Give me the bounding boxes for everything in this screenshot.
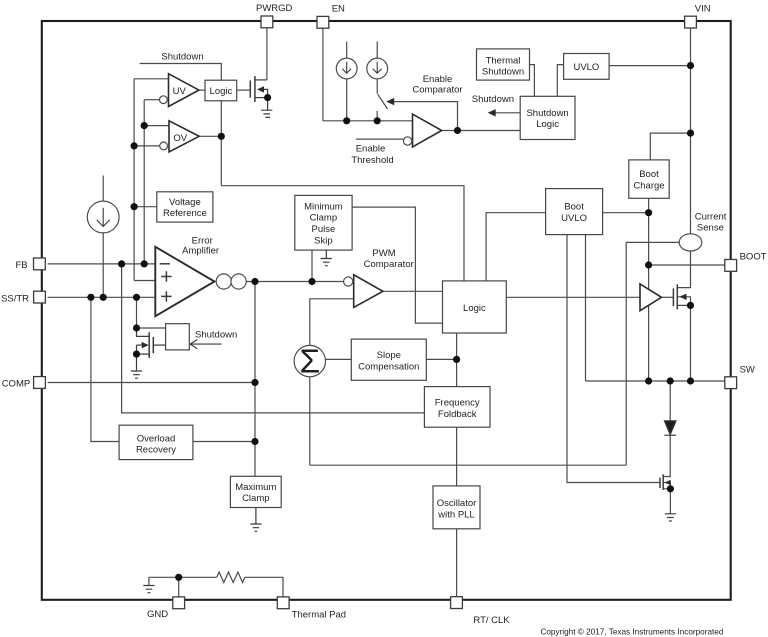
bubble enable comparator inverting input bbox=[403, 137, 411, 145]
junction COMP node bbox=[251, 379, 258, 386]
pin PWRGD bbox=[261, 16, 273, 28]
shutdown control box bbox=[166, 324, 190, 350]
wire GND pin riser bbox=[178, 577, 180, 597]
current source I2 circle bbox=[367, 58, 388, 79]
svg-text:Recovery: Recovery bbox=[136, 445, 176, 456]
bubble OV inverting input bbox=[160, 142, 168, 150]
wire long rail to main logic bbox=[221, 186, 464, 281]
pin RT/CLK bbox=[451, 597, 463, 609]
thermal shutdown box bbox=[477, 49, 530, 80]
svg-text:Thermal: Thermal bbox=[486, 55, 521, 66]
wire current source I2 stub bbox=[376, 42, 378, 59]
wire UV comparator top input (FB net) bbox=[134, 78, 168, 80]
wire Q3 source to SW bbox=[677, 305, 690, 381]
wire driver output to Q3 gate bbox=[662, 296, 674, 298]
transistor Q3 body arrow bbox=[680, 294, 687, 300]
comparator enable bbox=[413, 114, 442, 147]
transistor Q2 gate stub bbox=[153, 344, 165, 346]
current source I2 arrow bbox=[373, 62, 382, 73]
wire Q2 drain node to shutdown box bbox=[137, 327, 166, 329]
junction Q3 source SW bbox=[687, 377, 694, 384]
current source I1 circle bbox=[336, 58, 357, 79]
transistor Q1 gate bar bbox=[249, 80, 251, 97]
junction FB net OV input bbox=[141, 122, 148, 129]
wire logic U2 to Q1 gate bbox=[237, 89, 250, 91]
diode D1 bbox=[664, 421, 676, 435]
resistor R1 bbox=[217, 572, 245, 582]
arrowhead shutdown signal bbox=[488, 109, 496, 116]
svg-text:Clamp: Clamp bbox=[242, 493, 269, 504]
summer circle bbox=[294, 345, 325, 376]
ground at GND net bbox=[143, 586, 154, 593]
pin BOOT bbox=[725, 260, 737, 272]
pin SW bbox=[725, 377, 737, 389]
transistor Q1 source stub bbox=[255, 97, 268, 99]
svg-text:SS/TR: SS/TR bbox=[1, 293, 29, 304]
svg-text:Shutdown: Shutdown bbox=[472, 94, 514, 105]
svg-text:Shutdown: Shutdown bbox=[482, 67, 524, 78]
junction Q2 drain bbox=[133, 324, 140, 331]
wire main logic to gate driver bbox=[506, 296, 640, 298]
wire oscillator to RT/CLK pin bbox=[456, 529, 458, 597]
comparator UV bbox=[169, 74, 199, 107]
svg-text:Threshold: Threshold bbox=[351, 155, 393, 166]
svg-text:Voltage: Voltage bbox=[169, 197, 201, 208]
voltage reference box bbox=[157, 192, 213, 222]
pin EN bbox=[317, 16, 329, 28]
error amp plus input sign 1 bbox=[161, 271, 171, 281]
ground at Q2 source bbox=[131, 371, 142, 378]
frequency foldback box bbox=[424, 387, 490, 428]
junction GND net bbox=[175, 574, 182, 581]
wire boot charge to BOOT rail bbox=[648, 198, 650, 265]
transistor Q2 gate bar bbox=[152, 337, 154, 353]
switch SW1 blade bbox=[378, 94, 388, 109]
wire enable threshold stub bbox=[356, 138, 404, 140]
wire UV output to logic U2 bbox=[199, 89, 205, 91]
wire PWM comparator output to main logic bbox=[383, 290, 443, 292]
gate driver buffer bbox=[640, 284, 662, 311]
wire Q4 source to ground bbox=[663, 489, 670, 514]
junction BOOT rail bbox=[645, 261, 652, 268]
junction slope compensation output bbox=[453, 356, 460, 363]
comparator PWM bbox=[354, 275, 383, 308]
wire SS/TR pin to error amp plus input bbox=[48, 296, 156, 298]
op-amp U1 error amplifier bbox=[155, 247, 214, 316]
wire FB pin to error amp minus input bbox=[48, 263, 156, 265]
wire BOOT pin line bbox=[649, 264, 725, 266]
junction boot charge VIN rail bbox=[687, 130, 694, 137]
wire OV comparator top input bbox=[144, 125, 169, 127]
junction overload recovery SS/TR bbox=[87, 294, 94, 301]
junction FB to foldback bbox=[118, 260, 125, 267]
wire OV output bbox=[199, 135, 221, 137]
junction vref voltage reference bbox=[131, 203, 138, 210]
junction Q3 source body bbox=[687, 302, 694, 309]
junction overload recovery output bbox=[251, 438, 258, 445]
svg-text:GND: GND bbox=[147, 609, 168, 620]
svg-text:UVLO: UVLO bbox=[561, 213, 587, 224]
wire current sense vertical bbox=[625, 242, 627, 465]
transistor Q4 body arrow bbox=[665, 480, 671, 485]
wire summer bottom bbox=[309, 377, 311, 466]
wire main logic to slope node down bbox=[456, 333, 458, 387]
wire EN pin down bbox=[322, 27, 324, 121]
pin FB bbox=[34, 258, 46, 270]
wire diode D1 to Q4 drain bbox=[663, 435, 670, 476]
junction UVLO VIN rail bbox=[687, 62, 694, 69]
svg-text:Pulse: Pulse bbox=[312, 224, 336, 235]
svg-text:Logic: Logic bbox=[463, 303, 486, 314]
wire current source I1 to EN rail bbox=[346, 79, 348, 121]
junction OV output bbox=[218, 133, 225, 140]
junction diode SW bbox=[667, 377, 674, 384]
wire vref to error amp plus input bbox=[134, 280, 155, 282]
oscillator with PLL box bbox=[433, 486, 480, 529]
wire UVLO to shutdown logic bbox=[557, 65, 563, 97]
ground at Q1 source bbox=[261, 110, 272, 117]
transistor Q4 channel bar bbox=[662, 474, 664, 490]
wire Q2 source to ground bbox=[136, 354, 138, 371]
svg-text:BOOT: BOOT bbox=[740, 251, 767, 262]
wire current source I3 stub bbox=[102, 176, 104, 202]
wire overload recovery left to SS/TR bbox=[91, 297, 119, 441]
junction vref OV bubble bbox=[131, 142, 138, 149]
wire VIN pin down to current sense bbox=[690, 27, 692, 234]
svg-text:Frequency: Frequency bbox=[435, 398, 480, 409]
pin GND bbox=[173, 597, 185, 609]
junction I1 EN rail bbox=[343, 117, 350, 124]
wire GND net ground stub bbox=[148, 577, 150, 585]
wire summer to slope compensation bbox=[326, 358, 351, 360]
wire boot UVLO to low side gate bbox=[567, 235, 660, 483]
svg-text:Shutdown: Shutdown bbox=[195, 330, 237, 341]
svg-text:Thermal Pad: Thermal Pad bbox=[292, 609, 346, 620]
ground at minimum clamp bbox=[321, 250, 332, 266]
svg-text:Logic: Logic bbox=[210, 86, 233, 97]
transistor Q2 source stub bbox=[137, 353, 150, 355]
transistor Q2 drain stub bbox=[137, 328, 150, 336]
svg-text:Minimum: Minimum bbox=[304, 201, 343, 212]
transistor Q1 body stub with arrow bbox=[263, 89, 268, 97]
transistor Q1 channel bar bbox=[254, 76, 256, 102]
wire current source I3 to SS/TR bbox=[102, 233, 104, 297]
svg-text:Skip: Skip bbox=[314, 235, 332, 246]
wire minimum clamp down to error amp output bbox=[311, 250, 313, 281]
arrowhead feedback to switch bbox=[386, 98, 394, 105]
junction enable comparator output bbox=[454, 127, 461, 134]
bubble PWM comparator inverting input bbox=[344, 277, 353, 286]
svg-text:COMP: COMP bbox=[2, 379, 31, 390]
svg-text:Maximum: Maximum bbox=[235, 482, 276, 493]
wire switch bottom stub bbox=[376, 111, 378, 121]
wire SS/TR to shutdown transistor Q2 bbox=[136, 297, 138, 328]
wire PWRGD pin to Q1 drain bbox=[266, 27, 268, 80]
error amp output circle A bbox=[216, 274, 231, 289]
wire voltage reference to vref net bbox=[134, 206, 157, 208]
transistor Q4 gate bar bbox=[659, 478, 661, 488]
svg-text:Boot: Boot bbox=[564, 202, 584, 213]
wire current source I2 to switch bbox=[376, 79, 378, 94]
svg-text:Foldback: Foldback bbox=[438, 409, 477, 420]
svg-text:Shutdown: Shutdown bbox=[161, 51, 203, 62]
wire COMP pin to comp node bbox=[48, 382, 255, 384]
wire boot UVLO left to main logic bbox=[486, 213, 545, 281]
transistor Q2 channel bar bbox=[148, 332, 150, 358]
junction error amp output bbox=[251, 278, 258, 285]
wire UV comparator bubble input bbox=[144, 99, 159, 101]
transistor Q3 channel bar bbox=[676, 284, 678, 309]
svg-text:PWRGD: PWRGD bbox=[256, 3, 293, 14]
wire summer to PWM comparator plus input bbox=[310, 299, 354, 346]
svg-text:Overload: Overload bbox=[137, 433, 176, 444]
wire overload recovery output to comp node bbox=[193, 441, 255, 443]
svg-text:Comparator: Comparator bbox=[364, 259, 414, 270]
UVLO box bbox=[564, 54, 610, 80]
svg-text:Amplifier: Amplifier bbox=[182, 245, 219, 256]
wire SW to diode D1 bbox=[669, 381, 671, 421]
transistor Q1 drain stub bbox=[255, 79, 267, 81]
svg-text:Slope: Slope bbox=[377, 350, 401, 361]
svg-text:Oscillator: Oscillator bbox=[437, 498, 477, 509]
svg-text:Shutdown: Shutdown bbox=[526, 108, 568, 119]
wire EN input rail to enable comparator bbox=[323, 120, 413, 122]
svg-text:Charge: Charge bbox=[633, 180, 664, 191]
wire boot UVLO to boot rail bbox=[603, 212, 649, 214]
junction boot rail SW bbox=[645, 377, 652, 384]
wire thermal shutdown to shutdown logic bbox=[530, 65, 535, 97]
svg-text:Boot: Boot bbox=[639, 169, 659, 180]
svg-text:Current: Current bbox=[695, 212, 727, 223]
svg-text:Comparator: Comparator bbox=[412, 84, 462, 95]
pin Thermal Pad bbox=[277, 597, 289, 609]
shutdown logic box bbox=[520, 96, 575, 139]
wire Q1 source to ground bbox=[267, 98, 269, 110]
svg-text:with PLL: with PLL bbox=[437, 509, 474, 520]
minimum clamp pulse skip box bbox=[295, 195, 352, 250]
svg-text:Clamp: Clamp bbox=[310, 213, 337, 224]
overload recovery box bbox=[119, 425, 193, 459]
junction FB net FB line bbox=[141, 260, 148, 267]
wire VIN rail to boot charge bbox=[650, 133, 690, 160]
wire OV comparator bubble input bbox=[134, 145, 160, 147]
wire shutdown signal arrow line bbox=[496, 112, 521, 114]
wire boot rail through driver to SW bbox=[648, 265, 650, 381]
junction Q2 source bbox=[133, 351, 140, 358]
wire OV node down from logic U2 bbox=[220, 101, 222, 186]
svg-text:UV: UV bbox=[173, 86, 187, 97]
maximum clamp box bbox=[230, 476, 281, 507]
svg-text:Σ: Σ bbox=[299, 343, 320, 380]
svg-text:EN: EN bbox=[332, 3, 345, 14]
svg-text:SW: SW bbox=[740, 365, 755, 376]
svg-text:Copyright © 2017, Texas Instru: Copyright © 2017, Texas Instruments Inco… bbox=[540, 628, 723, 637]
svg-text:FB: FB bbox=[15, 260, 27, 271]
slope compensation box bbox=[351, 339, 426, 380]
ground at maximum clamp bbox=[250, 508, 261, 532]
bubble UV inverting input bbox=[160, 96, 168, 104]
current sense ellipse bbox=[679, 234, 702, 251]
wire minimum clamp to main logic bbox=[352, 207, 442, 323]
junction Q4 source body bbox=[667, 485, 674, 492]
wire boot UVLO to SW rail bbox=[585, 235, 587, 381]
wire GND net horizontal bbox=[149, 576, 217, 578]
wire comp node vertical bbox=[254, 282, 256, 477]
svg-text:PWM: PWM bbox=[372, 248, 395, 259]
wire vref net vertical bbox=[133, 79, 135, 281]
svg-text:UVLO: UVLO bbox=[573, 62, 599, 73]
ground at Q4 source bbox=[665, 514, 676, 521]
wire enable comparator feedback to switch bbox=[392, 102, 458, 131]
wire SW pin line bbox=[586, 380, 725, 382]
junction I2 EN rail bbox=[374, 117, 381, 124]
svg-text:Enable: Enable bbox=[356, 144, 386, 155]
current source I3 arrow bbox=[97, 208, 110, 227]
svg-text:Logic: Logic bbox=[536, 119, 559, 130]
junction minimum clamp output bbox=[308, 278, 315, 285]
wire slope compensation output bbox=[426, 358, 456, 360]
svg-text:RT/ CLK: RT/ CLK bbox=[473, 615, 510, 626]
wire VIN rail to Q3 drain bbox=[677, 251, 690, 288]
wire frequency foldback to oscillator bbox=[456, 427, 458, 486]
junction I3 SS/TR bbox=[100, 294, 107, 301]
current source I3 circle bbox=[87, 201, 119, 233]
wire current source I1 stub bbox=[346, 42, 348, 59]
wire enable comparator output to shutdown logic bbox=[442, 130, 521, 132]
svg-text:Compensation: Compensation bbox=[358, 361, 419, 372]
wire shutdown label line to logic U2 bbox=[140, 64, 222, 81]
wire current sense to ellipse bbox=[626, 241, 680, 243]
boot charge box bbox=[629, 160, 669, 198]
main logic box U3 bbox=[443, 281, 507, 333]
junction Q2 SS/TR bbox=[133, 294, 140, 301]
wire Q3 body tie bbox=[677, 297, 690, 306]
error amp plus input sign 2 bbox=[161, 291, 171, 301]
junction boot UVLO boot rail bbox=[645, 209, 652, 216]
current source I1 arrow bbox=[342, 62, 351, 73]
wire current sense horizontal bbox=[310, 464, 626, 466]
wire error amp output to PWM comparator bbox=[246, 281, 343, 283]
wire Q4 body tie bbox=[663, 483, 670, 489]
svg-text:Enable: Enable bbox=[423, 74, 453, 85]
logic box U2 bbox=[205, 80, 237, 101]
error amp output circle B bbox=[231, 274, 246, 289]
comparator OV bbox=[169, 121, 199, 152]
svg-text:Sense: Sense bbox=[697, 223, 724, 234]
wire resistor to thermal pad pin bbox=[245, 577, 283, 597]
pin VIN bbox=[685, 16, 697, 28]
pin COMP bbox=[34, 377, 46, 389]
wire FB to frequency foldback bbox=[122, 264, 425, 413]
error amp minus input sign bbox=[160, 263, 170, 265]
arrow open head into shutdown box bbox=[190, 340, 221, 349]
svg-text:Reference: Reference bbox=[163, 208, 207, 219]
svg-text:OV: OV bbox=[173, 133, 187, 144]
svg-text:VIN: VIN bbox=[695, 4, 711, 15]
transistor Q2 body stub with arrow bbox=[136, 345, 138, 354]
boot UVLO box bbox=[546, 189, 603, 235]
wire UVLO to VIN rail bbox=[609, 65, 690, 67]
junction Q1 source body bbox=[264, 94, 271, 101]
transistor Q3 gate bar bbox=[672, 288, 674, 306]
wire FB net vertical bbox=[143, 100, 145, 264]
pin SS/TR bbox=[34, 291, 46, 303]
